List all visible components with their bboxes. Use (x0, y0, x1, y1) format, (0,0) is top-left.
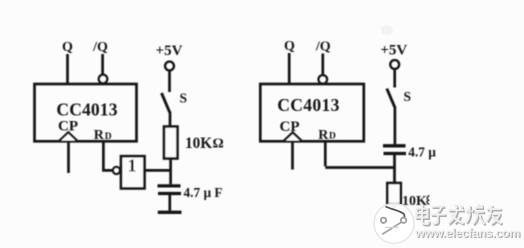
capacitor C2 top plate (383, 144, 406, 147)
clock edge triangle (U3 CP) (284, 133, 301, 141)
wire switch to resistor R1 (169, 112, 172, 127)
svg-text:+5V: +5V (156, 43, 183, 59)
wire RD to inverter input (102, 142, 113, 171)
wire inverter output to node A (145, 169, 172, 172)
wire R2 to ground (right, mostly hidden by watermark logo) (393, 205, 396, 210)
inversion bubble on /Q (U3) (319, 75, 327, 83)
switch S2 blade (387, 89, 395, 108)
svg-text:CC4013: CC4013 (277, 95, 339, 115)
svg-text:D: D (105, 132, 112, 142)
svg-text:+5V: +5V (380, 42, 407, 58)
capacitor C2 bottom plate (384, 152, 407, 155)
svg-text:R: R (318, 128, 329, 143)
svg-text:4.7 µ F: 4.7 µ F (184, 185, 223, 200)
switch S1 blade (162, 93, 170, 112)
wire RD to node B (325, 142, 394, 168)
watermark logo circle (elecfans) (374, 203, 414, 243)
inversion bubble on /Q (U1) (99, 75, 107, 83)
wire supply to switch (left) (168, 71, 171, 93)
svg-text:www.elecfans.com: www.elecfans.com (414, 226, 520, 240)
wire supply to switch (right) (393, 69, 396, 88)
inverter U2 body (121, 156, 145, 188)
svg-text:Q: Q (284, 39, 295, 54)
clock edge triangle (U1 CP) (60, 132, 78, 140)
capacitor C1 bottom plate (158, 192, 181, 195)
svg-text:/Q: /Q (92, 40, 108, 55)
wire /Q output (U3) (321, 54, 324, 76)
faint smudge artifact top right (381, 25, 393, 35)
svg-text:Ω: Ω (213, 137, 224, 152)
svg-text:CP: CP (280, 119, 300, 135)
resistor R2 body (387, 183, 401, 205)
svg-text:1: 1 (128, 156, 137, 176)
svg-text:R: R (94, 128, 105, 143)
watermark chinese text dian-zi-fa-shao-you (embossed) (417, 205, 503, 226)
svg-text:10K: 10K (185, 135, 212, 152)
inverter U2 input bubble (113, 167, 120, 174)
ground (left) (158, 211, 182, 214)
svg-text:4.7 µ: 4.7 µ (408, 144, 436, 159)
svg-text:D: D (329, 132, 336, 142)
wire /Q output (U1) (101, 54, 104, 75)
wire CP input (U3) (291, 142, 294, 170)
wire C1 to ground (168, 195, 171, 211)
wire CP input (U1) (67, 142, 70, 174)
wire R1 to node A to capacitor C1 (169, 159, 172, 185)
svg-text:S: S (404, 89, 412, 104)
svg-text:/Q: /Q (315, 40, 331, 55)
wire Q output (U1) (66, 54, 69, 84)
wire C2 through node B to resistor R2 (393, 155, 396, 183)
svg-text:CC4013: CC4013 (56, 100, 117, 120)
wire switch to capacitor C2 (394, 107, 397, 145)
flip-flop U3 CC4013 body (260, 84, 364, 141)
wire Q output (U3) (288, 53, 291, 84)
supply terminal circle (right) (390, 60, 399, 69)
svg-text:S: S (180, 91, 188, 106)
supply terminal circle (left) (165, 62, 174, 71)
flip-flop U1 CC4013 body (35, 84, 137, 141)
svg-text:Q: Q (62, 40, 73, 55)
resistor R1 body (164, 127, 178, 159)
capacitor C1 top plate (158, 184, 181, 187)
